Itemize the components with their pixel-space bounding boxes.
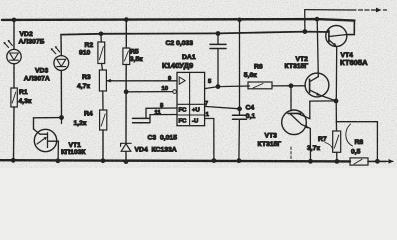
node emitter junction x335 [334, 99, 339, 104]
wire emitter node down to R7 [335, 101, 337, 131]
wire node down to VT3 base [290, 86, 292, 111]
resistor R8 [350, 158, 368, 165]
LED VD2 [4, 40, 22, 64]
node top rail junction x126 [124, 17, 129, 22]
wire stub below node [61, 118, 63, 124]
op-amp DA1 [173, 72, 205, 125]
wire bottom ground rail [1, 159, 394, 164]
wire pin10 node to op-amp pin 10 [126, 91, 173, 93]
node ground junction x103 [101, 158, 106, 163]
wire R2 to R3 [102, 64, 103, 71]
wire VD3 cathode down to VT1 node [60, 70, 62, 117]
node C2 to output line [216, 84, 221, 89]
node output to second rail [303, 29, 308, 34]
node VT1 drain junction [59, 115, 64, 120]
node pin7 C4 junction [237, 106, 242, 111]
wire R5 down to pin10 node [125, 65, 127, 92]
node C2 junction on second rail [216, 31, 221, 36]
wire output terminal [305, 8, 387, 32]
transistor VT1 [34, 129, 59, 161]
transistor VT2 [305, 19, 336, 101]
wire R7 to ground [336, 152, 338, 161]
wire feedback branch to after R8 [336, 122, 377, 162]
wire R3 wiper to op-amp pin 9 [107, 80, 177, 82]
wire R3 to R4 [102, 91, 104, 110]
wire VD2 cathode to R1 [13, 64, 15, 88]
wire top rail hook to VT4 collector [347, 21, 355, 35]
node ground junction x239 [237, 158, 242, 163]
wire pin10 node down to VD4 [125, 92, 127, 143]
wire second rail (output net) [61, 32, 329, 35]
wire R4 to ground [102, 130, 104, 161]
capacitor C3 [133, 118, 150, 122]
resistor R2 [98, 42, 105, 64]
resistor R1 [11, 88, 17, 107]
node top rail junction x317 [315, 17, 320, 22]
node ground junction x126 [124, 159, 129, 164]
leader arc R8 [346, 124, 353, 146]
resistor R6 [248, 82, 272, 89]
wire node to VT2 base [291, 85, 305, 87]
wire R6 right to VT2 base node [272, 85, 291, 87]
leader arc R7 [325, 143, 333, 150]
wire VD4 to ground [125, 151, 127, 161]
node ground junction x310 [308, 159, 313, 164]
wire R2 top [100, 34, 102, 42]
node ground junction x377 [375, 159, 380, 164]
wire +U feed from top rail [239, 20, 241, 109]
wire pin 7 supply [205, 106, 240, 108]
node top rail junction x239 [237, 18, 242, 23]
wire top supply rail [2, 19, 354, 21]
zener VD4 [121, 143, 132, 151]
wire op-amp output pin 5 [205, 86, 250, 89]
wire VD2 anode from rail [13, 20, 15, 50]
LED VD3 [51, 46, 69, 70]
resistor R4 [100, 110, 107, 130]
transistor VT4 [326, 26, 347, 101]
node ground junction x214 [212, 158, 217, 163]
capacitor C2 [210, 34, 226, 87]
node pin10 junction [124, 89, 129, 94]
resistor R7 [333, 131, 341, 152]
wire R1 to ground rail [13, 107, 16, 160]
wire pin 8 to C3 [146, 108, 177, 118]
wire dashed stub x291 bottom [290, 147, 292, 161]
wire pin 1 to ground [205, 119, 214, 161]
node second rail junction R2 [99, 32, 104, 37]
resistor R5 [123, 48, 130, 65]
wire R5 top from rail [125, 20, 127, 48]
node ground junction x57.8 [56, 158, 61, 163]
resistor R3 trimmer [99, 70, 112, 91]
paper grain overlay [0, 0, 397, 168]
node VT2 base junction [289, 83, 294, 88]
capacitor C4 [233, 109, 247, 161]
node ground junction x13 [11, 158, 16, 163]
node top rail junction x14 [12, 18, 17, 23]
node ground junction x337 [335, 159, 340, 164]
wire VT1 drain [34, 118, 62, 129]
transistor VT3 [282, 101, 336, 161]
wire pin 11 to C3 [150, 115, 177, 123]
wire VD3 top from second rail [60, 35, 62, 56]
